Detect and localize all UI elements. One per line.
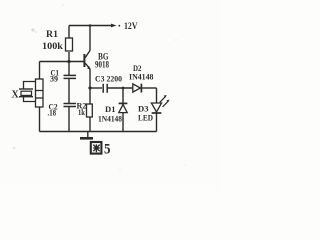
svg-text:1N4148: 1N4148 [98, 113, 122, 123]
wire: crystal parallel branch [24, 82, 36, 102]
node: collector/rail junction [89, 24, 92, 27]
svg-text:IN4148: IN4148 [129, 71, 154, 81]
diode D1 (1N4148) shunt [122, 88, 124, 132]
capacitor C1 [64, 75, 77, 78]
wire: D2 to LED corner [141, 87, 156, 89]
node: D1 top junction [122, 87, 125, 90]
LED D3 emission arrows [160, 96, 169, 107]
wire: base line (node B) [40, 61, 85, 63]
wire: 12V rail to R1 top [68, 26, 70, 40]
svg-text:LED: LED [138, 112, 153, 122]
transistor BG 9018 (NPN) [84, 51, 90, 69]
diode D2 (1N4148) [133, 84, 142, 93]
svg-text:.18: .18 [48, 108, 57, 117]
node: junction R1 / C1 / base [67, 60, 70, 63]
wire: base line left corner down to crystal [39, 62, 41, 80]
svg-text:9018: 9018 [95, 59, 109, 69]
wire: R1 bottom to base node [68, 52, 70, 62]
wire: collector up to 12V rail [89, 26, 91, 51]
svg-text:100k: 100k [42, 41, 63, 51]
wire: +12V top rail [69, 25, 112, 27]
capacitor C3 [103, 84, 107, 93]
crystal X element (plate-box-plate) [19, 89, 33, 97]
label: caption 图 5 (figure 5) [91, 142, 102, 154]
node: emitter / C3 branch junction [88, 86, 91, 89]
svg-text:39: 39 [50, 75, 58, 84]
capacitor C2 [64, 104, 77, 107]
ground symbol [80, 132, 93, 139]
wire: crystal block to ground rail [39, 107, 41, 132]
svg-text:1k: 1k [78, 107, 85, 117]
svg-text:12V: 12V [124, 22, 138, 32]
scan speckle (decorative) [13, 4, 201, 171]
svg-text:C3 2200: C3 2200 [95, 74, 122, 83]
crystal X holder (segmented block) [36, 79, 44, 107]
wire: emitter down through R2 to ground rail [89, 69, 91, 132]
wire: C1 to C2 [68, 78, 70, 103]
pin: emitter arrow [87, 66, 90, 70]
power symbol: 12V arrow terminal [111, 24, 120, 28]
wire: C3 to D1 node to D2 [107, 87, 133, 89]
wire: ground rail [40, 131, 157, 133]
wire: emitter node to C3 [90, 87, 102, 89]
wire: C2 to ground rail [68, 107, 70, 132]
resistor R1 [66, 38, 73, 51]
svg-text:R1: R1 [46, 29, 59, 39]
wire: base node down to C1 [68, 62, 70, 76]
svg-text:5: 5 [104, 141, 111, 157]
LED D3 [156, 88, 158, 132]
resistor R2 [87, 104, 93, 117]
svg-text:X: X [12, 90, 20, 101]
